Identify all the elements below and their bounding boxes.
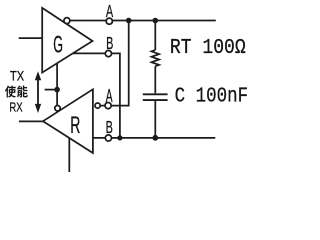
svg-text:C 100nF: C 100nF	[175, 85, 249, 109]
svg-text:RX: RX	[9, 101, 22, 115]
label CJK neng (of enable)	[17, 85, 28, 97]
wire: R bottom stub	[68, 138, 70, 173]
node A terminal circle (R input)	[105, 103, 111, 109]
wire: R output to the left	[19, 120, 43, 122]
resistor RT bottom lead	[154, 66, 156, 93]
wire: enable stub to arrow label	[45, 89, 58, 91]
junction dot net B bottom / B drop	[117, 135, 122, 140]
capacitor C bottom lead	[154, 100, 156, 138]
junction dot net A / RT branch	[153, 18, 159, 24]
svg-text:G: G	[53, 33, 63, 59]
receiver R triangle U2	[43, 89, 93, 153]
resistor RT zigzag body	[152, 50, 160, 66]
svg-text:A: A	[106, 87, 113, 107]
node A terminal circle (top)	[106, 18, 112, 24]
svg-text:R: R	[70, 112, 80, 139]
wire: vertical from net A down, corner to R input A	[100, 21, 129, 106]
wire: G input	[19, 37, 43, 39]
R enable bubble	[55, 106, 60, 111]
junction dot net B bottom / C branch	[152, 135, 158, 141]
svg-text:B: B	[106, 35, 113, 54]
node B terminal circle (top)	[105, 51, 111, 57]
svg-text:A: A	[106, 3, 113, 22]
svg-text:B: B	[106, 119, 113, 138]
G output bubble	[64, 18, 70, 24]
node B terminal circle (R input)	[105, 135, 111, 141]
wire: bottom net B from R edge to right end	[93, 137, 215, 139]
capacitor C bottom plate	[143, 99, 168, 101]
TX/RX direction double arrow	[37, 80, 39, 105]
capacitor C top plate	[143, 93, 168, 95]
svg-text:TX: TX	[10, 67, 25, 84]
driver G triangle U1	[42, 8, 92, 73]
junction dot net A / R branch	[126, 18, 132, 24]
label CJK shi (of enable)	[5, 86, 16, 98]
wire: net B from G hypotenuse right then down to R input B	[73, 53, 120, 137]
svg-text:RT 100Ω: RT 100Ω	[170, 37, 246, 60]
wire: net A top from G output to right end	[70, 20, 215, 22]
R input bubble A	[95, 103, 100, 108]
junction dot enable stub	[54, 87, 60, 93]
resistor RT top lead	[154, 21, 156, 51]
wire: enable vertical from G to R	[56, 63, 58, 105]
